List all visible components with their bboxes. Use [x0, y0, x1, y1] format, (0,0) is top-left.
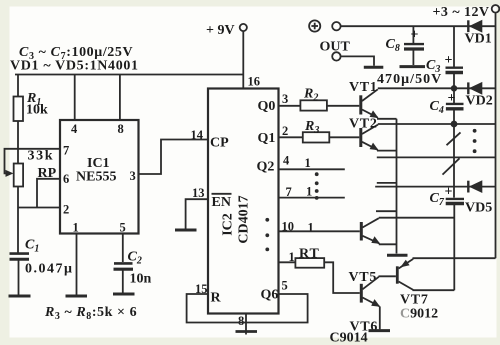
- wire omitted stage emitter stub: [377, 182, 397, 184]
- diode VD2: [467, 82, 469, 94]
- wire rail to IC1 pin4: [74, 75, 76, 121]
- wire VT5 collector line L8: [379, 217, 455, 219]
- wire R1 to RP: [17, 121, 19, 164]
- svg-text:CD4017: CD4017: [237, 195, 252, 243]
- wire RP wiper arm from pin7: [5, 149, 61, 174]
- svg-text:1: 1: [73, 221, 79, 235]
- ground C1: [9, 295, 31, 298]
- wire Q6... pin1 to RT: [279, 261, 296, 263]
- wire IC1 pin3 to IC2 CP: [139, 140, 209, 175]
- wire IC1 pin5 to C2: [122, 234, 124, 263]
- svg-text:EN: EN: [212, 195, 231, 210]
- svg-text:8: 8: [238, 314, 244, 328]
- svg-text:5: 5: [120, 221, 126, 235]
- svg-text:7: 7: [63, 144, 69, 158]
- svg-text:14: 14: [191, 128, 204, 142]
- svg-text:16: 16: [248, 75, 261, 89]
- ellipsis dots inside IC2: [265, 218, 269, 222]
- svg-text:1: 1: [306, 185, 312, 199]
- ground OUT-: [364, 66, 384, 69]
- svg-text:4: 4: [71, 122, 78, 136]
- resistor R2: [300, 100, 327, 110]
- terminal +9V: [240, 24, 247, 31]
- wire RT to VT6 base: [324, 262, 360, 293]
- diode VD1: [467, 20, 469, 32]
- break slash 1: [447, 132, 461, 145]
- wire node A to C4: [453, 88, 455, 103]
- ground IC1 pin1: [66, 295, 88, 298]
- terminal plus symbol: [309, 20, 320, 31]
- svg-text:6: 6: [63, 172, 69, 186]
- svg-text:1: 1: [308, 221, 314, 235]
- ground bus bar: [387, 254, 408, 257]
- svg-text:1: 1: [305, 156, 311, 170]
- wire VT5 emitter to bus: [379, 243, 397, 245]
- transistor VT6: [360, 284, 363, 303]
- wire +9V rail: [15, 74, 243, 76]
- terminal OUT-: [332, 52, 340, 60]
- wire VT6 emitter to ground: [379, 306, 381, 329]
- wire C7 bottom to VT7 collector: [453, 204, 455, 291]
- wire top line L1 OUT+ to rail: [341, 25, 496, 27]
- IC U2 IC2 CD4017 box: [208, 89, 279, 314]
- svg-text:NE555: NE555: [76, 170, 116, 185]
- svg-text:Q0: Q0: [258, 99, 276, 114]
- svg-text:RT: RT: [299, 246, 320, 261]
- svg-text:2: 2: [282, 124, 288, 138]
- ground C8: [400, 65, 426, 68]
- wire Q4 row stub: [279, 197, 345, 199]
- svg-text:VT2: VT2: [349, 117, 378, 132]
- capacitor C4: [446, 103, 464, 105]
- svg-text:33k: 33k: [28, 149, 55, 164]
- wire Q5 to VT5 base: [279, 230, 360, 232]
- wire VT2 collector line L3: [378, 123, 496, 125]
- wire Q6 pin5 to R pin15 reset loop: [187, 294, 308, 323]
- wire C3 drop from L1: [453, 26, 455, 66]
- wire IC1 pin1 to ground: [76, 234, 78, 295]
- svg-text:+ 9V: + 9V: [206, 23, 235, 38]
- terminal OUT+: [332, 22, 340, 30]
- capacitor C3: [446, 66, 464, 68]
- resistor R1: [14, 97, 24, 122]
- svg-text:0.047μ: 0.047μ: [25, 262, 73, 277]
- svg-text:C9012: C9012: [400, 307, 438, 322]
- svg-text:Q2: Q2: [257, 160, 275, 175]
- wire OUT- to ground: [341, 56, 374, 65]
- svg-text:+: +: [411, 28, 419, 43]
- transistor VT2: [359, 128, 362, 147]
- ground C2: [113, 293, 135, 296]
- capacitor C1: [10, 252, 30, 255]
- svg-text:10n: 10n: [130, 272, 152, 287]
- svg-text:VD1: VD1: [465, 32, 492, 47]
- node A junction: [451, 85, 457, 91]
- wire C2 to ground: [122, 269, 124, 293]
- resistor RT: [295, 258, 324, 268]
- svg-text:13: 13: [192, 186, 205, 200]
- wire omitted stage emitter stub 2: [376, 210, 397, 212]
- wire VT6 collector to VT7 base: [379, 275, 396, 277]
- wire VT7 emitter row to rail: [413, 257, 496, 259]
- svg-text:+: +: [448, 91, 456, 106]
- wire IC2 pin8 to ground: [245, 314, 247, 335]
- node B junction: [451, 121, 458, 128]
- svg-text:3: 3: [130, 169, 136, 183]
- op-amp U1 IC1 NE555 box: [60, 120, 139, 234]
- capacitor C8: [412, 26, 414, 43]
- wire +9V to IC2 pin16: [242, 31, 244, 88]
- svg-text:IC2: IC2: [221, 213, 236, 236]
- svg-text:C9014: C9014: [330, 331, 368, 345]
- wire right rail: [495, 13, 497, 259]
- svg-text:+: +: [445, 185, 453, 200]
- ground pin13: [175, 229, 197, 232]
- ellipsis dots omitted diodes: [473, 129, 477, 133]
- ground pin8: [236, 330, 258, 333]
- capacitor C2: [114, 262, 133, 265]
- svg-text:VT1: VT1: [349, 80, 378, 95]
- wire omitted stage collector line L4: [377, 156, 496, 158]
- svg-text:10k: 10k: [26, 103, 48, 118]
- wire rail to R1: [17, 75, 19, 98]
- wire IC1 pin2: [18, 207, 60, 209]
- wire R2 to VT1 base: [327, 105, 359, 107]
- wire emitter ground bus: [396, 119, 398, 254]
- potentiometer RP 33k: [14, 164, 23, 187]
- wire VT2 emitter to bus: [377, 150, 397, 152]
- svg-text:4: 4: [283, 154, 290, 168]
- svg-text:2: 2: [63, 203, 69, 217]
- diode VD5: [467, 181, 469, 193]
- transistor VT5: [360, 222, 363, 241]
- svg-text:3: 3: [282, 92, 288, 106]
- wiper arrowhead: [6, 170, 14, 177]
- wire C4 to node B: [453, 109, 455, 124]
- svg-text:470μ/50V: 470μ/50V: [377, 72, 442, 87]
- wire Q3 row stub: [279, 168, 345, 170]
- svg-text:8: 8: [118, 122, 124, 136]
- ground VT6 emitter: [369, 329, 391, 332]
- wire rail to IC1 pin8: [119, 75, 121, 121]
- wire IC1 pin6: [37, 179, 60, 208]
- wire Q0 to R2: [279, 105, 301, 107]
- break slash 2: [443, 158, 460, 174]
- transistor VT7 (PNP C9012): [396, 266, 399, 283]
- svg-text:Q1: Q1: [258, 131, 276, 146]
- capacitor C7: [446, 198, 464, 200]
- svg-text:VT7: VT7: [400, 293, 429, 308]
- transistor VT1: [359, 95, 362, 114]
- wire VT1 emitter to bus: [377, 118, 397, 120]
- svg-text:+: +: [445, 53, 453, 68]
- svg-text:CP: CP: [210, 136, 229, 151]
- wire omitted stage collector line L5 (VD5 row): [375, 186, 495, 188]
- svg-text:Q6: Q6: [261, 288, 279, 303]
- wire node B down through break marks: [453, 124, 455, 198]
- wire RP to node pin2: [17, 187, 19, 254]
- wire C1 to ground: [18, 259, 20, 295]
- wire R3 to VT2 base: [329, 136, 359, 138]
- svg-text:5: 5: [282, 279, 288, 293]
- wire IC2 pin13 to ground: [186, 199, 208, 229]
- wire Q1 to R3: [279, 136, 303, 138]
- svg-text:VD1 ~ VD5:1N4001: VD1 ~ VD5:1N4001: [10, 59, 139, 74]
- svg-text:VD5: VD5: [465, 201, 492, 216]
- wire VT1 collector line L2: [378, 87, 496, 89]
- svg-text:VD2: VD2: [466, 94, 493, 109]
- resistor R3: [303, 132, 330, 142]
- ellipsis dots rows: [315, 172, 319, 176]
- svg-text:R: R: [211, 291, 222, 306]
- wire C3 to node A: [453, 73, 455, 89]
- svg-text:+3 ~ 12V: +3 ~ 12V: [433, 5, 490, 20]
- wire VT7 collector to C7 bottom: [413, 289, 455, 291]
- svg-text:VT5: VT5: [349, 270, 378, 285]
